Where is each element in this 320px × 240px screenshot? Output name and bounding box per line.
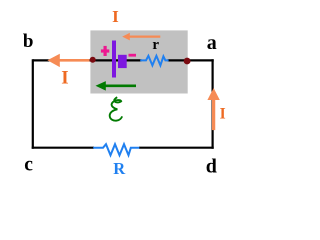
battery positive plate [112, 41, 116, 78]
svg-text:b: b [23, 31, 34, 52]
current arrow I on top-left wire [47, 54, 89, 67]
current arrow I on right wire [207, 88, 219, 130]
wire top-left segment b through battery to resistor r [33, 59, 142, 61]
svg-text:I: I [112, 7, 119, 26]
wire left side b to c [32, 59, 34, 148]
node at a-side battery terminal [184, 58, 191, 65]
svg-text:R: R [113, 159, 126, 178]
plus polarity mark [101, 46, 109, 56]
wire resistor r to node a corner [168, 59, 214, 61]
wire bottom-right segment R to d [139, 147, 214, 149]
wire right side a to d [212, 59, 214, 148]
green EMF direction arrow [96, 81, 137, 91]
current arrow I inside battery block (top) [122, 33, 160, 41]
internal resistor r zigzag [140, 56, 168, 66]
minus polarity mark [129, 54, 137, 57]
svg-text:r: r [152, 37, 159, 53]
external resistor R zigzag [93, 144, 139, 155]
wire bottom-left segment c to R [32, 147, 94, 149]
svg-text:c: c [24, 154, 33, 175]
node at b-side battery terminal [90, 57, 96, 63]
svg-text:I: I [61, 68, 68, 89]
battery negative plate [118, 55, 127, 68]
svg-text:a: a [207, 32, 217, 54]
svg-text:d: d [206, 156, 217, 178]
battery block shaded background [90, 30, 187, 93]
EMF script-E symbol [110, 97, 122, 120]
svg-text:I: I [220, 105, 226, 122]
